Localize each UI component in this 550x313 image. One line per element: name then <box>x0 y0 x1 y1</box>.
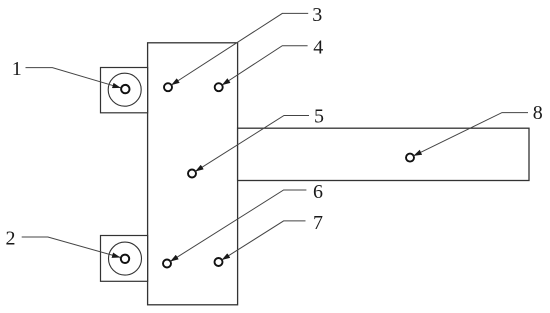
bolt circle 6 <box>163 260 171 268</box>
big circle in block 1 <box>108 73 141 106</box>
bolt circle 3 <box>164 83 172 91</box>
leader line 7 <box>222 221 306 260</box>
svg-text:3: 3 <box>312 4 322 26</box>
bolt circle of part 1 <box>121 85 129 93</box>
leader line 4 <box>222 46 308 85</box>
big circle in block 2 <box>109 242 142 275</box>
left block square 1 <box>101 68 148 113</box>
leader line 1 <box>26 68 121 88</box>
leader line 8 <box>414 113 528 156</box>
bolt circle of part 2 <box>121 255 129 263</box>
svg-text:7: 7 <box>313 212 323 234</box>
bolt circle 5 <box>188 170 196 178</box>
leader line 2 <box>22 237 121 257</box>
svg-text:2: 2 <box>6 227 16 249</box>
bolt circle 4 <box>215 83 223 91</box>
bolt circle 7 <box>215 258 223 266</box>
leader line 3 <box>171 13 308 85</box>
horizontal arm rectangle <box>238 128 529 180</box>
left block square 2 <box>101 236 148 282</box>
leader line 5 <box>195 116 309 172</box>
leader line 6 <box>170 190 306 261</box>
bolt circle 8 <box>406 154 414 162</box>
vertical plate rectangle <box>148 43 238 305</box>
svg-text:1: 1 <box>12 58 22 80</box>
svg-text:5: 5 <box>314 106 324 128</box>
svg-text:8: 8 <box>533 102 543 124</box>
svg-text:6: 6 <box>313 181 323 203</box>
svg-text:4: 4 <box>313 37 323 59</box>
